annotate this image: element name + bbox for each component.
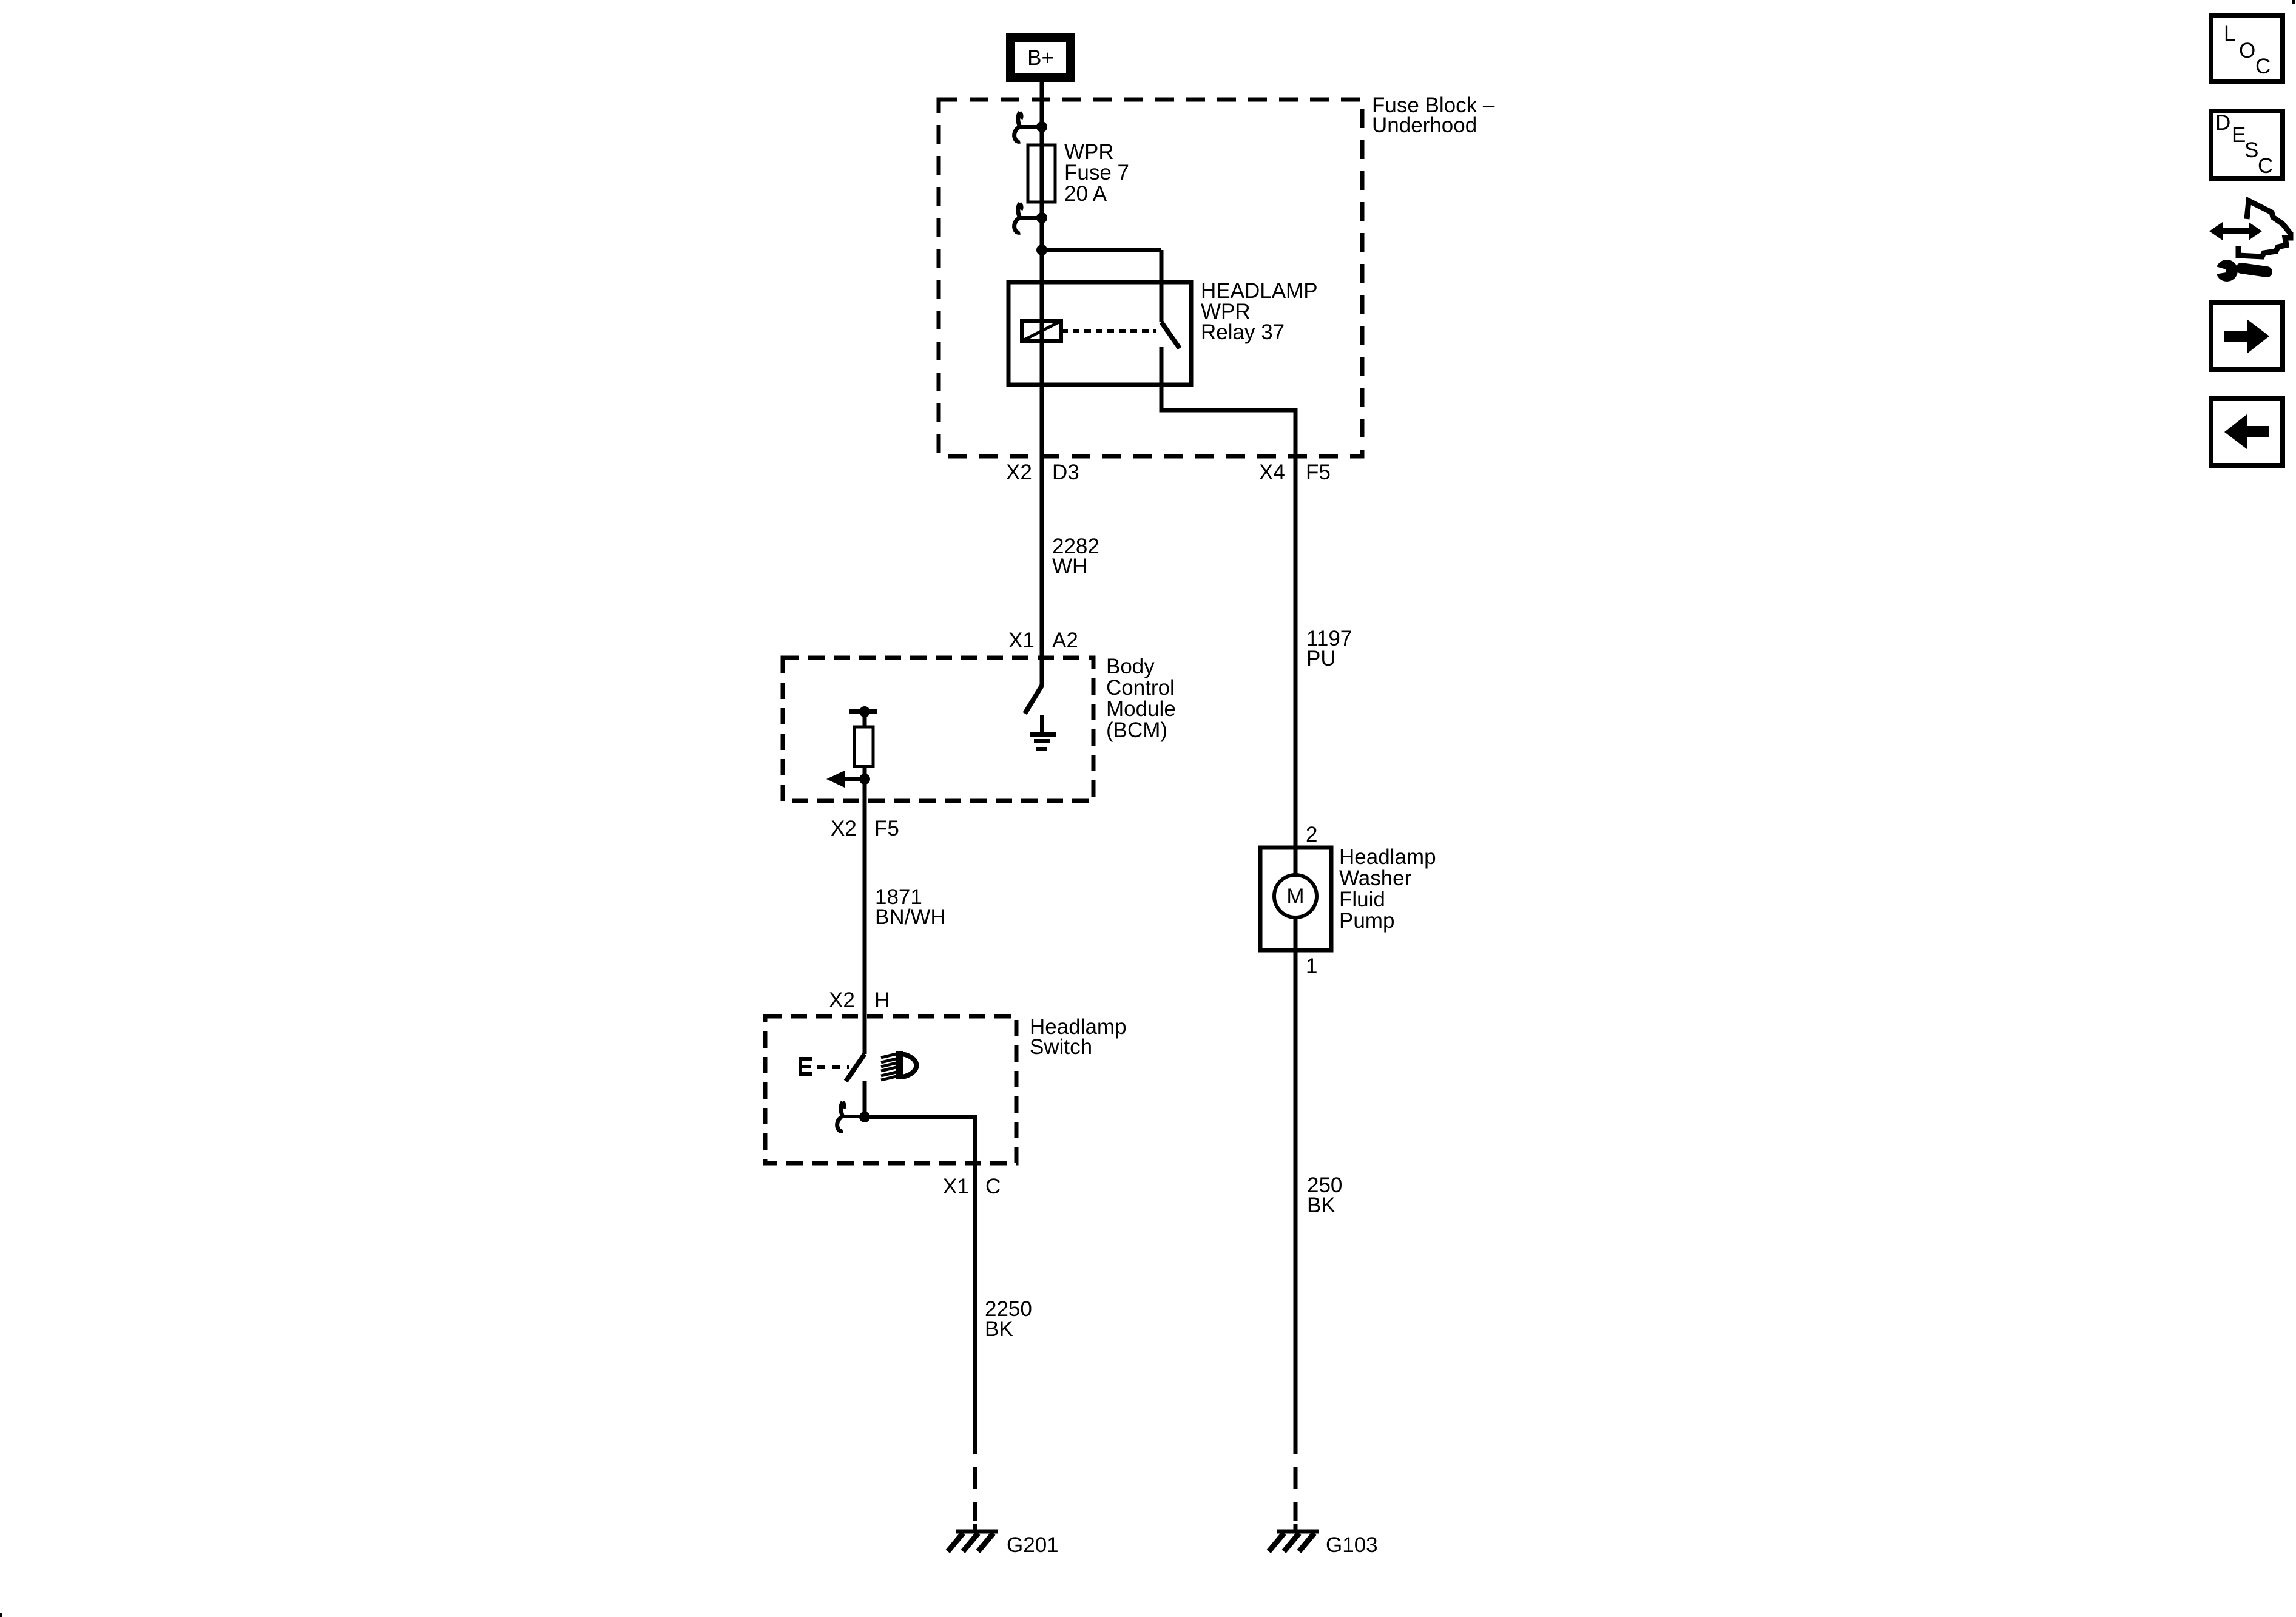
svg-text:C: C	[2258, 154, 2273, 178]
svg-text:O: O	[2239, 39, 2255, 62]
svg-text:D3: D3	[1052, 461, 1079, 484]
svg-text:X2: X2	[831, 817, 857, 840]
svg-text:Headlamp: Headlamp	[1339, 845, 1436, 869]
svg-text:20 A: 20 A	[1064, 182, 1107, 206]
svg-text:BN/WH: BN/WH	[875, 905, 946, 929]
svg-text:X2: X2	[829, 988, 855, 1012]
svg-text:Fuse 7: Fuse 7	[1064, 161, 1129, 184]
svg-text:Control: Control	[1106, 676, 1175, 700]
svg-text:F5: F5	[874, 817, 899, 840]
svg-text:D: D	[2215, 111, 2230, 135]
svg-text:B+: B+	[1027, 46, 1054, 70]
svg-text:WH: WH	[1052, 555, 1087, 578]
svg-text:L: L	[2224, 22, 2235, 46]
svg-text:A2: A2	[1052, 629, 1078, 652]
svg-text:F5: F5	[1306, 461, 1331, 484]
svg-text:Fluid: Fluid	[1339, 888, 1385, 911]
svg-text:E: E	[2232, 123, 2246, 147]
svg-text:H: H	[874, 988, 890, 1012]
svg-text:X1: X1	[1008, 629, 1035, 652]
svg-text:G201: G201	[1007, 1533, 1059, 1557]
svg-text:X1: X1	[943, 1175, 969, 1198]
svg-text:BK: BK	[985, 1317, 1013, 1341]
svg-text:X2: X2	[1006, 461, 1032, 484]
svg-text:M: M	[1286, 885, 1304, 908]
svg-text:Body: Body	[1106, 655, 1155, 678]
svg-text:Underhood: Underhood	[1372, 113, 1477, 137]
svg-text:2: 2	[1306, 823, 1317, 846]
svg-text:S: S	[2244, 138, 2258, 162]
svg-text:C: C	[2255, 55, 2271, 78]
svg-text:(BCM): (BCM)	[1106, 718, 1167, 742]
svg-text:Pump: Pump	[1339, 909, 1394, 933]
svg-text:1: 1	[1306, 954, 1317, 978]
svg-text:X4: X4	[1259, 461, 1285, 484]
svg-text:Washer: Washer	[1339, 866, 1412, 890]
svg-text:Switch: Switch	[1030, 1035, 1092, 1059]
svg-text:G103: G103	[1326, 1533, 1378, 1557]
svg-text:Relay 37: Relay 37	[1201, 320, 1285, 344]
svg-text:BK: BK	[1307, 1193, 1335, 1217]
svg-text:C: C	[985, 1175, 1001, 1198]
svg-text:Module: Module	[1106, 697, 1176, 721]
svg-text:PU: PU	[1306, 647, 1336, 670]
